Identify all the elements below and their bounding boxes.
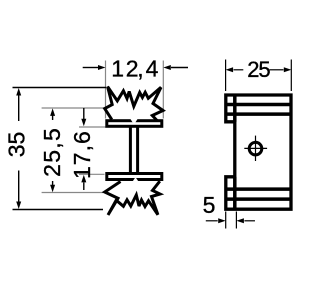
svg-text:35: 35 [4,132,30,158]
svg-text:25: 25 [247,57,270,82]
svg-text:5: 5 [203,192,216,218]
svg-text:12,4: 12,4 [111,55,158,81]
svg-text:25,5: 25,5 [39,127,65,177]
svg-text:17,6: 17,6 [69,130,95,179]
